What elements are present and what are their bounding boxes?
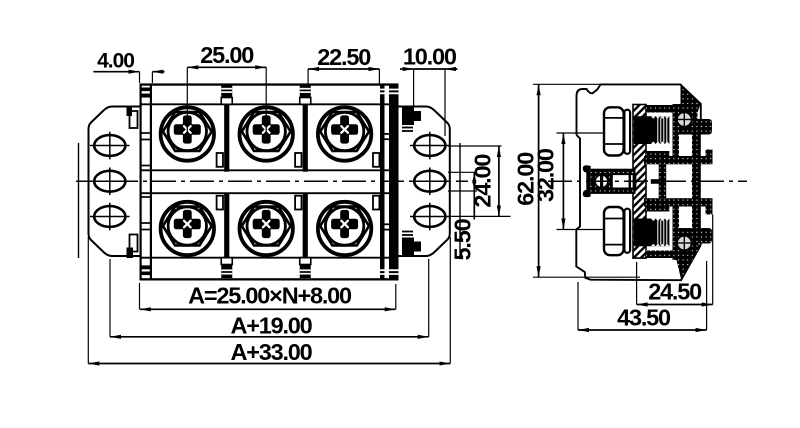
bottom hex head	[604, 207, 630, 255]
rail C bottom band	[644, 198, 713, 206]
centre clamp cage bars	[629, 174, 631, 188]
rail C left column	[659, 164, 667, 198]
terminal screw B3	[318, 202, 371, 255]
right flange top clamp hook	[402, 107, 421, 132]
dimension 22.50	[308, 44, 379, 84]
svg-text:24.50: 24.50	[648, 279, 702, 305]
dimension 25.00	[187, 42, 266, 134]
right mounting flange outline	[399, 107, 450, 257]
left flange top latch tab	[127, 108, 138, 129]
centre clamp screw circle	[595, 175, 608, 188]
top hex head	[604, 107, 630, 155]
dimension 62.00	[513, 84, 641, 277]
right flange bottom clamp hook	[402, 232, 421, 257]
centre clamp frame top band	[591, 169, 636, 175]
right flange oval hole top	[410, 132, 450, 160]
left mounting flange outline	[89, 107, 140, 257]
below-shaft slab top	[646, 151, 669, 159]
plastic section bottom slab	[646, 251, 675, 259]
svg-text:25.00: 25.00	[200, 42, 254, 68]
pocket notch 2	[295, 153, 301, 210]
body bottom rail line	[140, 257, 398, 259]
svg-text:4.00: 4.00	[97, 49, 134, 72]
centre clamp bracket	[583, 165, 591, 197]
rail C bottom stub	[706, 207, 713, 215]
dimension 5.50	[448, 172, 477, 260]
dimension 4.00	[93, 49, 164, 83]
divider wall 2	[300, 84, 311, 278]
side body outline lower left	[576, 135, 701, 280]
right wall	[692, 134, 701, 229]
pocket notch 3	[373, 153, 379, 210]
dimension 32.00	[533, 133, 605, 230]
svg-text:A+33.00: A+33.00	[230, 339, 312, 365]
above-shaft slab bottom	[646, 204, 669, 212]
dimension 43.50	[578, 261, 707, 330]
rail hook top	[698, 119, 713, 135]
dimension A=25.00xN+8.00	[140, 283, 396, 310]
boss column top	[673, 134, 680, 157]
right flange oval hole middle	[410, 167, 450, 195]
left flange oval hole middle	[90, 167, 130, 195]
centre clamp left block	[591, 173, 612, 190]
dimension 10.00	[400, 44, 458, 137]
top screw end circle	[677, 112, 692, 127]
boss column bottom	[673, 206, 680, 229]
svg-text:43.50: 43.50	[617, 304, 671, 330]
dimension 24.50	[637, 215, 713, 305]
body top rail line	[140, 103, 398, 105]
svg-text:5.50: 5.50	[450, 218, 476, 260]
bottom screw end circle	[677, 236, 692, 251]
left flange oval hole bottom	[90, 203, 130, 231]
svg-text:32.00: 32.00	[533, 148, 559, 202]
side body outline upper left	[577, 84, 701, 135]
centre clamp frame bottom band	[591, 188, 636, 194]
dimension 24.00	[448, 146, 511, 216]
terminal screw A2	[240, 107, 293, 160]
rail C top stub	[706, 150, 713, 158]
body top edge	[140, 83, 399, 85]
centre clamp cage box	[612, 174, 636, 188]
svg-text:A+19.00: A+19.00	[230, 312, 312, 338]
top screw shaft	[634, 116, 669, 144]
terminal screw B1	[161, 202, 214, 255]
left end plate	[140, 85, 153, 280]
rail C top band	[644, 156, 713, 164]
body middle strip upper line	[140, 169, 398, 171]
left flange phantom line	[78, 143, 80, 258]
body middle strip lower line	[140, 192, 398, 194]
terminal screw A3	[318, 107, 371, 160]
svg-text:22.50: 22.50	[317, 44, 371, 70]
pocket notch 1	[217, 153, 223, 210]
centre contact bar	[651, 179, 661, 184]
right end plates	[380, 85, 399, 280]
right flange phantom line	[459, 143, 461, 258]
side view centerline	[548, 180, 747, 182]
plastic section screw boss top	[673, 104, 698, 135]
front view centerline	[76, 180, 468, 182]
left flange bottom latch tab	[127, 235, 138, 259]
bottom screw shaft	[634, 219, 669, 247]
dimension A+33.00	[88, 237, 450, 365]
divider wall 1	[221, 84, 232, 278]
plastic section top slab	[646, 86, 700, 113]
svg-text:A=25.00×N+8.00: A=25.00×N+8.00	[188, 283, 352, 309]
plastic section screw boss bottom	[673, 228, 701, 280]
centre clamp screw slot	[600, 175, 603, 188]
section hatch metal strip	[633, 105, 646, 259]
terminal screw B2	[240, 202, 293, 255]
rail hook bottom	[698, 228, 713, 244]
body bottom edge	[140, 278, 399, 280]
right flange oval hole bottom	[410, 203, 450, 231]
left flange oval hole top	[90, 132, 130, 160]
svg-text:10.00: 10.00	[403, 44, 457, 70]
dimension A+19.00	[110, 259, 429, 338]
terminal screw A1	[161, 107, 214, 160]
